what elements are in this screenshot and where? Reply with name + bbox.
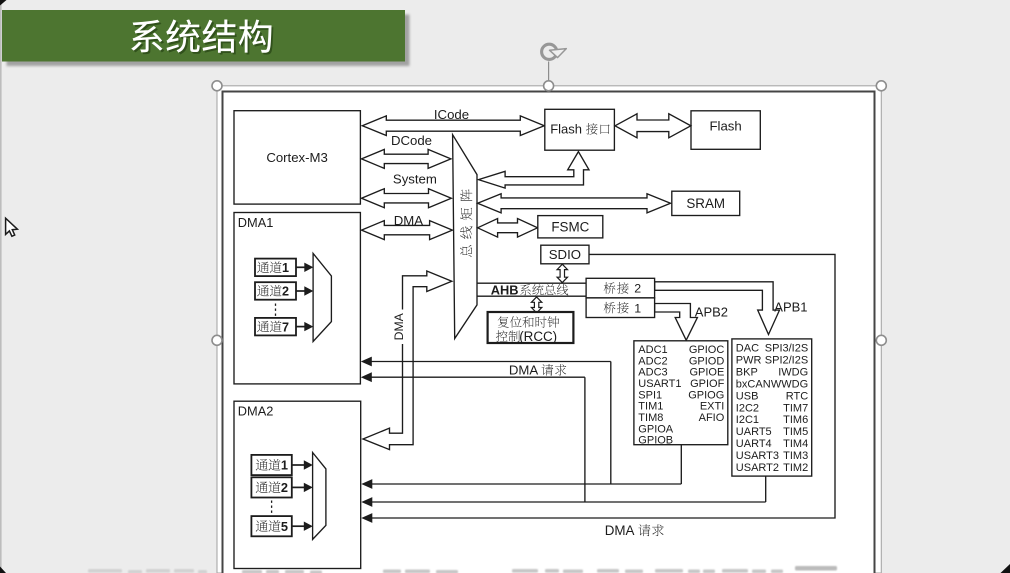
svg-text:Cortex-M3: Cortex-M3 (266, 150, 328, 165)
svg-text:APB1: APB1 (774, 300, 807, 315)
svg-text:Flash: Flash (709, 118, 741, 133)
svg-text:SPI1: SPI1 (638, 389, 662, 401)
svg-text:USB: USB (736, 390, 759, 402)
svg-text:TIM3: TIM3 (783, 450, 808, 462)
svg-text:UART4: UART4 (736, 438, 772, 450)
svg-text:USART1: USART1 (638, 378, 681, 390)
svg-text:GPIOD: GPIOD (689, 355, 725, 367)
svg-text:RTC: RTC (786, 390, 808, 402)
svg-text:SDIO: SDIO (549, 247, 581, 262)
svg-text:ADC2: ADC2 (638, 355, 667, 367)
svg-text:GPIOF: GPIOF (690, 378, 725, 390)
svg-text:TIM5: TIM5 (783, 426, 808, 438)
svg-text:TIM1: TIM1 (638, 401, 663, 413)
svg-text:5: 5 (281, 519, 288, 534)
svg-text:I2C1: I2C1 (736, 414, 759, 426)
svg-text:AHB: AHB (491, 283, 519, 298)
svg-text:System: System (393, 172, 437, 187)
svg-text:TIM4: TIM4 (783, 438, 808, 450)
svg-text:BKP: BKP (736, 366, 758, 378)
svg-text:TIM8: TIM8 (638, 412, 663, 424)
svg-text:USART3: USART3 (736, 450, 779, 462)
svg-text:DMA2: DMA2 (238, 404, 274, 419)
svg-text:SPI2/I2S: SPI2/I2S (765, 354, 808, 366)
svg-text:GPIOA: GPIOA (638, 423, 674, 435)
svg-text:ICode: ICode (434, 107, 469, 122)
svg-text:(RCC): (RCC) (519, 329, 557, 344)
svg-text:SRAM: SRAM (686, 196, 725, 211)
svg-text:1: 1 (281, 458, 288, 473)
svg-text:SPI3/I2S: SPI3/I2S (765, 342, 808, 354)
svg-text:GPIOC: GPIOC (689, 344, 725, 356)
svg-text:DCode: DCode (391, 133, 432, 148)
svg-text:GPIOB: GPIOB (638, 435, 673, 447)
svg-text:TIM2: TIM2 (783, 462, 808, 474)
svg-text:I2C2: I2C2 (736, 402, 759, 414)
svg-text:TIM6: TIM6 (783, 414, 808, 426)
svg-text:7: 7 (282, 320, 289, 334)
svg-text:ADC1: ADC1 (638, 344, 667, 356)
svg-text:DMA: DMA (394, 213, 424, 228)
svg-text:USART2: USART2 (736, 462, 779, 474)
svg-text:TIM7: TIM7 (783, 402, 808, 414)
svg-text:EXTI: EXTI (700, 401, 724, 413)
svg-text:1: 1 (282, 261, 289, 275)
svg-text:DMA: DMA (392, 312, 406, 340)
svg-text:FSMC: FSMC (551, 220, 589, 235)
svg-text:GPIOG: GPIOG (688, 389, 724, 401)
svg-text:DMA: DMA (605, 523, 635, 538)
svg-text:DMA1: DMA1 (238, 215, 274, 230)
svg-text:APB2: APB2 (695, 305, 728, 320)
svg-text:IWDG: IWDG (778, 366, 808, 378)
svg-text:WWDG: WWDG (771, 378, 808, 390)
svg-text:2: 2 (282, 285, 289, 299)
svg-text:ADC3: ADC3 (638, 367, 667, 379)
svg-text:DAC: DAC (736, 342, 759, 354)
svg-text:bxCAN: bxCAN (736, 378, 771, 390)
svg-text:2: 2 (634, 282, 641, 296)
svg-text:AFIO: AFIO (699, 412, 725, 424)
svg-text:1: 1 (634, 301, 641, 315)
svg-text:DMA: DMA (509, 363, 539, 378)
svg-text:GPIOE: GPIOE (689, 367, 724, 379)
svg-text:Flash: Flash (550, 122, 582, 137)
svg-text:2: 2 (281, 480, 288, 495)
svg-text:PWR: PWR (736, 354, 762, 366)
svg-text:UART5: UART5 (736, 426, 772, 438)
